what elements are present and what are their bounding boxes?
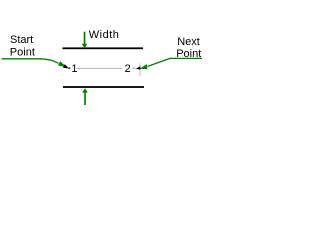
svg-text:Start: Start [10, 34, 33, 46]
dimension line between points (gray) [76, 68, 122, 69]
bottom line of slot [63, 86, 144, 88]
svg-text:Next: Next [177, 36, 200, 48]
vertical tick mark at point 2 [139, 64, 140, 77]
svg-text:Width: Width [89, 29, 120, 41]
start point callout arrow (green) [2, 59, 71, 69]
width arrow down (top) [82, 32, 88, 49]
label Start Point [10, 34, 35, 58]
svg-text:2: 2 [125, 63, 131, 75]
label Next Point [176, 36, 201, 60]
svg-text:Point: Point [10, 46, 35, 58]
dimension line gray dash after 2 [132, 68, 136, 69]
top line of slot [63, 47, 144, 49]
next point callout arrow (green) [136, 58, 202, 69]
width arrow up (bottom) [82, 88, 88, 105]
